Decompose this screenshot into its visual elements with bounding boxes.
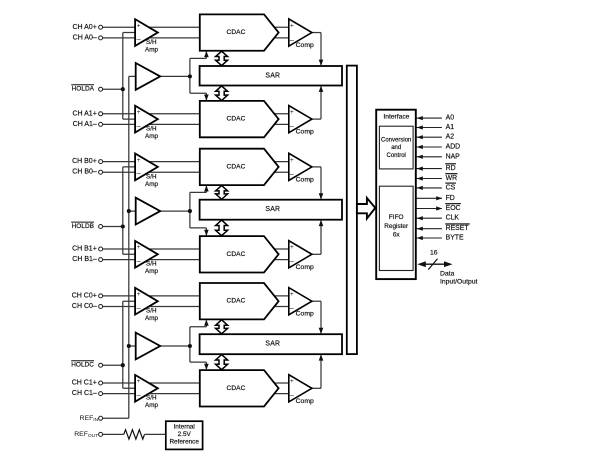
svg-text:CH C0–: CH C0– [72,303,97,310]
svg-text:SAR: SAR [265,341,280,348]
svg-text:Conversion: Conversion [381,137,411,143]
svg-text:+: + [290,291,294,298]
svg-text:A0: A0 [446,115,455,122]
svg-text:CH B0–: CH B0– [72,169,97,176]
svg-text:Amp: Amp [145,315,158,322]
svg-text:S/H: S/H [146,39,157,46]
svg-text:S/H: S/H [146,173,157,180]
svg-text:S/H: S/H [146,395,157,402]
svg-text:CH A0+: CH A0+ [72,24,96,31]
svg-text:NAP: NAP [446,153,461,160]
svg-text:S/H: S/H [146,308,157,315]
svg-text:CH C1+: CH C1+ [72,380,97,387]
svg-text:Amp: Amp [145,402,158,409]
svg-text:WR: WR [446,175,458,182]
svg-text:Data: Data [440,271,455,278]
svg-text:Amp: Amp [145,133,158,140]
svg-text:RD: RD [446,165,456,172]
svg-text:Input/Output: Input/Output [440,278,478,285]
svg-text:CH A1–: CH A1– [73,121,97,128]
svg-text:HOLDA: HOLDA [72,86,95,93]
svg-text:BYTE: BYTE [446,235,464,242]
svg-text:HOLDC: HOLDC [71,362,94,369]
svg-text:Comp: Comp [296,264,314,271]
svg-text:S/H: S/H [146,261,157,268]
svg-text:CLK: CLK [446,215,460,222]
svg-text:+: + [137,244,141,251]
svg-text:+: + [137,157,141,164]
svg-text:2.5V: 2.5V [178,431,192,438]
svg-text:+: + [290,244,294,251]
svg-text:Comp: Comp [296,398,314,405]
svg-text:Interface: Interface [383,114,409,121]
svg-text:EOC: EOC [446,205,461,212]
svg-text:+: + [137,291,141,298]
svg-text:SAR: SAR [265,206,280,213]
svg-text:CDAC: CDAC [227,385,246,392]
svg-text:Comp: Comp [296,311,314,318]
svg-text:+: + [290,22,294,29]
svg-text:Comp: Comp [296,42,314,49]
svg-text:Internal: Internal [174,423,195,430]
svg-text:CH B1–: CH B1– [72,256,97,263]
svg-text:A1: A1 [446,124,455,131]
svg-text:CDAC: CDAC [227,29,246,36]
svg-text:CH A1+: CH A1+ [72,110,96,117]
svg-text:Comp: Comp [296,176,314,183]
svg-text:Reference: Reference [169,438,199,445]
svg-text:and: and [391,145,401,151]
svg-text:A2: A2 [446,134,455,141]
svg-text:CS: CS [446,184,456,191]
svg-text:+: + [137,109,141,116]
svg-text:ADD: ADD [446,144,461,151]
svg-text:CH A0–: CH A0– [73,34,97,41]
svg-text:S/H: S/H [146,126,157,133]
svg-text:Control: Control [387,153,406,159]
svg-text:+: + [137,378,141,385]
svg-text:CDAC: CDAC [227,251,246,258]
svg-text:16: 16 [430,250,438,257]
svg-text:Amp: Amp [145,46,158,53]
svg-text:CH C0+: CH C0+ [72,292,97,299]
svg-text:+: + [290,157,294,164]
svg-text:CDAC: CDAC [227,116,246,123]
svg-text:+: + [290,109,294,116]
svg-text:6x: 6x [393,231,401,238]
svg-text:FD: FD [446,195,455,202]
svg-text:+: + [290,378,294,385]
svg-text:RESET: RESET [446,225,470,232]
svg-text:CH B1+: CH B1+ [72,246,97,253]
svg-text:HOLDB: HOLDB [72,223,94,230]
svg-text:SAR: SAR [265,72,280,79]
svg-text:Amp: Amp [145,268,158,275]
svg-text:CDAC: CDAC [227,298,246,305]
svg-text:Comp: Comp [296,129,314,136]
svg-text:CDAC: CDAC [227,163,246,170]
svg-text:CH C1–: CH C1– [72,390,97,397]
svg-text:Amp: Amp [145,181,158,188]
svg-text:CH B0+: CH B0+ [72,158,97,165]
svg-text:FIFO: FIFO [389,214,404,221]
svg-text:Register: Register [384,223,409,230]
svg-text:+: + [137,22,141,29]
